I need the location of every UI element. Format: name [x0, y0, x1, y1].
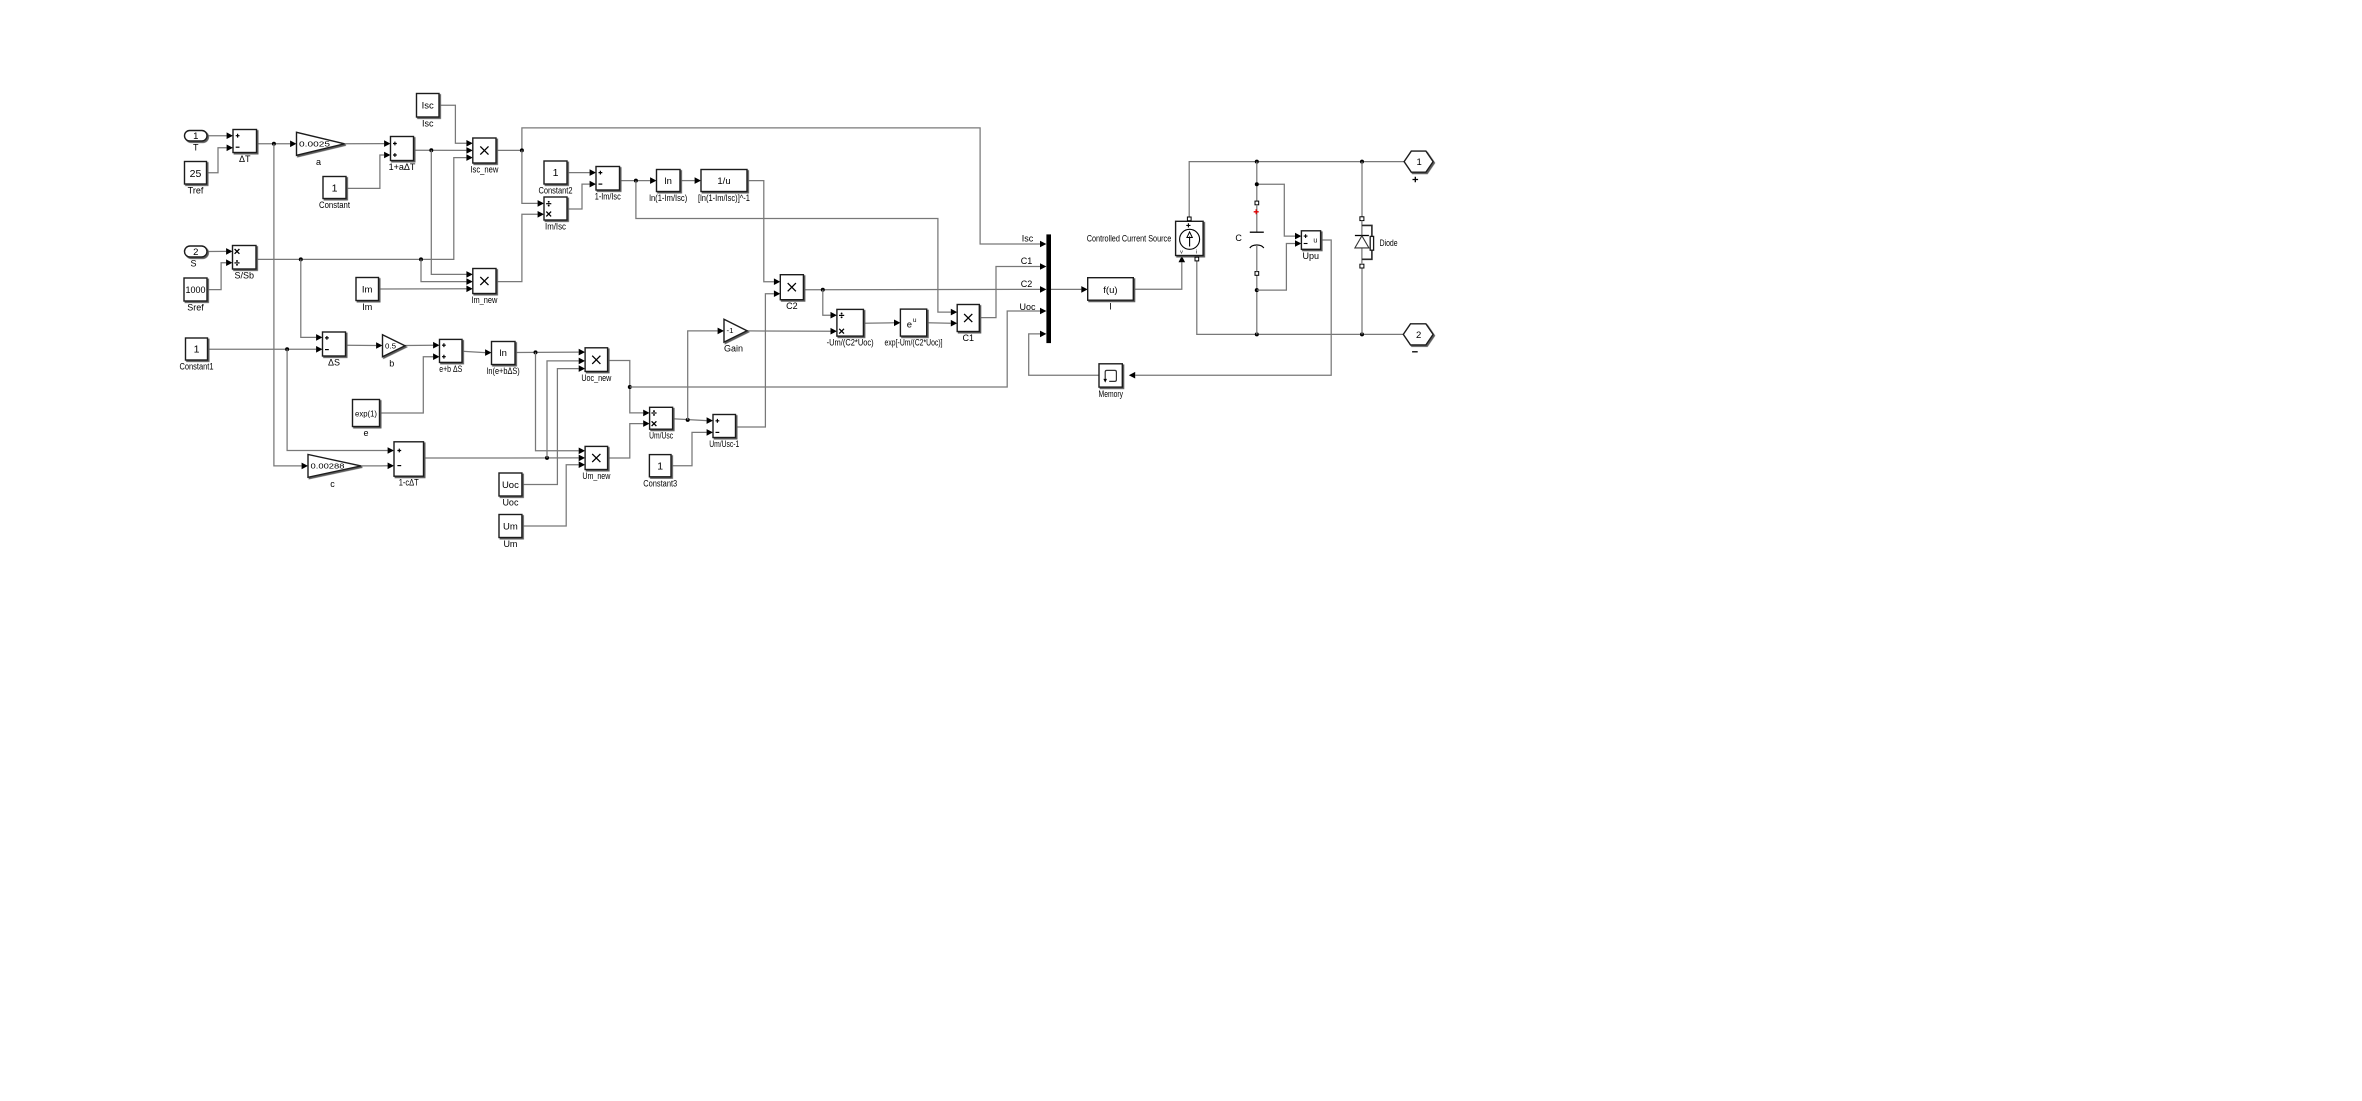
svg-text:exp[-Um/(C2*Uoc)]: exp[-Um/(C2*Uoc)]	[885, 338, 943, 348]
svg-text:b: b	[389, 358, 394, 368]
wire 1-Im/Isc to ln	[620, 180, 651, 182]
sum block 1-Im/Isc	[595, 167, 621, 202]
output port 2 -	[1403, 324, 1433, 352]
svg-text:Gain: Gain	[724, 344, 743, 354]
constant Constant2	[539, 161, 573, 196]
wire Um/Usc-1 to C2	[736, 294, 774, 427]
divide -Um/(C2*Uoc)	[827, 309, 874, 347]
1/u block	[698, 170, 750, 204]
wire Um_new to Um/Usc	[608, 424, 644, 458]
svg-text:Um/Usc-1: Um/Usc-1	[709, 439, 739, 449]
svg-text:1-cΔT: 1-cΔT	[399, 478, 419, 488]
svg-text:1: 1	[332, 183, 338, 195]
wire ΔT branch to gain c	[274, 144, 302, 466]
svg-text:0.00288: 0.00288	[311, 462, 345, 471]
gain c 0.00288	[308, 455, 361, 489]
sum block e+bΔS	[439, 339, 462, 374]
constant Um	[499, 515, 522, 550]
constant Constant3	[643, 455, 677, 489]
svg-text:Isc: Isc	[1022, 234, 1034, 244]
svg-text:Um/Usc: Um/Usc	[649, 431, 673, 441]
wire source to port 2 rail	[1197, 261, 1404, 335]
svg-text:1000: 1000	[186, 285, 206, 296]
gain b 0.5	[383, 335, 406, 369]
svg-text:Memory: Memory	[1099, 389, 1124, 399]
svg-text:Constant: Constant	[319, 200, 350, 210]
wire ΔS to gain b	[346, 344, 377, 346]
svg-text:C1: C1	[962, 333, 974, 343]
divide S/Sb	[233, 246, 257, 281]
svg-text:Isc_new: Isc_new	[470, 165, 498, 175]
wire div to exp	[863, 322, 894, 324]
wire f(u) to current source	[1133, 262, 1182, 289]
wire Constant2 to 1-Im/Isc	[567, 172, 590, 174]
svg-text:e: e	[363, 428, 368, 438]
svg-text:S: S	[190, 259, 196, 269]
wire 1+aΔT branch to Im_new	[431, 150, 466, 274]
wire e+bΔS to ln2	[462, 351, 485, 352]
svg-text:2: 2	[193, 247, 198, 258]
mux	[1046, 234, 1051, 343]
wire C2 branch to div	[823, 290, 831, 316]
svg-text:Um: Um	[503, 521, 518, 532]
svg-text:Um: Um	[503, 539, 517, 549]
svg-text:Upu: Upu	[1303, 251, 1320, 261]
wire 1-cΔT to Um_new	[424, 457, 579, 459]
wire C1 to mux	[979, 267, 1040, 318]
sum block 1+aΔT	[389, 137, 416, 173]
sum block Um/Usc-1	[709, 415, 739, 450]
diode	[1355, 217, 1398, 268]
wire Uoc_new to Um/Usc	[608, 361, 644, 413]
ln block ln(e+bΔS)	[487, 342, 520, 377]
memory block	[1099, 364, 1124, 399]
svg-text:0.5: 0.5	[385, 341, 396, 350]
wire Constant1 branch to 1-cΔT	[287, 349, 388, 450]
svg-text:1-Im/Isc: 1-Im/Isc	[595, 192, 621, 202]
svg-text:Im_new: Im_new	[471, 295, 497, 305]
wire Im to Im_new	[379, 288, 467, 290]
wire Constant1 to ΔS	[208, 348, 317, 350]
svg-text:a: a	[316, 157, 321, 167]
divide Um/Usc	[649, 407, 673, 440]
svg-text:Constant2: Constant2	[539, 186, 573, 196]
svg-text:ΔS: ΔS	[328, 358, 340, 368]
svg-text:f(u): f(u)	[1103, 285, 1117, 296]
wire Isc_new to mux	[496, 128, 1040, 244]
svg-text:T: T	[193, 143, 199, 153]
svg-text:25: 25	[190, 168, 202, 180]
wire diode top	[1361, 162, 1363, 217]
wire Im/Isc to 1-Im/Isc	[567, 184, 590, 209]
svg-text:1: 1	[553, 167, 559, 179]
wire S to S/Sb	[207, 250, 226, 252]
gain a 0.0025	[297, 132, 345, 167]
svg-text:Isc: Isc	[422, 101, 434, 112]
wire 1/u to C2	[747, 181, 774, 282]
wire gain a to 1+aΔT	[345, 143, 385, 145]
svg-text:1: 1	[193, 131, 198, 142]
svg-text:v: v	[1180, 250, 1183, 256]
svg-text:0.0025: 0.0025	[299, 140, 330, 149]
svg-text:Uoc: Uoc	[502, 480, 519, 491]
svg-text:e+b ΔS: e+b ΔS	[439, 364, 462, 374]
svg-text:Sref: Sref	[187, 303, 204, 313]
sum block ΔT	[233, 130, 257, 165]
constant Constant1	[180, 338, 214, 372]
wire ln2 to Uoc_new	[515, 351, 579, 353]
wire exp to C1	[927, 322, 951, 324]
wire source to port 1 rail	[1189, 162, 1404, 217]
wire Uoc to Uoc_new	[522, 369, 579, 485]
wire exp(1) to e+bΔS	[380, 357, 434, 413]
wire gain b to e+bΔS	[405, 344, 433, 346]
wire C2 to mux	[803, 288, 1040, 290]
wire Um/Usc branch to gain -1	[688, 331, 718, 420]
svg-text:-Um/(C2*Uoc): -Um/(C2*Uoc)	[827, 338, 874, 348]
constant Tref 25	[185, 162, 207, 196]
svg-text:I: I	[1109, 302, 1112, 312]
svg-text:C1: C1	[1021, 256, 1033, 266]
capacitor C	[1235, 201, 1263, 275]
input port 2 S	[185, 246, 208, 269]
svg-text:u: u	[913, 317, 917, 324]
svg-text:1+aΔT: 1+aΔT	[389, 162, 416, 172]
svg-text:exp(1): exp(1)	[355, 409, 377, 418]
svg-text:C2: C2	[1021, 279, 1033, 289]
voltage measurement Upu	[1301, 231, 1320, 261]
svg-text:S/Sb: S/Sb	[234, 271, 254, 281]
wire mux to f(u)	[1051, 288, 1081, 290]
svg-text:c: c	[330, 479, 335, 489]
input port 1 T	[185, 131, 208, 153]
svg-text:[ln(1-Im/Isc)]^-1: [ln(1-Im/Isc)]^-1	[698, 193, 750, 203]
svg-text:Uoc_new: Uoc_new	[581, 373, 611, 383]
wire Upu to Memory	[1135, 240, 1331, 375]
wire ln2 branch to Um_new	[536, 352, 579, 450]
svg-text:ln: ln	[664, 176, 671, 187]
product Im_new	[471, 269, 497, 306]
svg-text:C2: C2	[786, 301, 798, 311]
wire gain -1 to div	[747, 330, 831, 332]
gain -1	[724, 319, 747, 353]
sum block ΔS	[323, 332, 346, 368]
wire capacitor bottom	[1256, 275, 1258, 334]
product C2	[780, 275, 803, 312]
wire 1+aΔT to Isc_new	[414, 149, 467, 151]
controlled current source	[1087, 217, 1203, 261]
svg-text:i: i	[1196, 250, 1197, 256]
svg-text:ln(e+bΔS): ln(e+bΔS)	[487, 366, 520, 376]
svg-text:Um_new: Um_new	[582, 471, 610, 481]
svg-text:1: 1	[1416, 157, 1421, 168]
svg-text:e: e	[907, 319, 912, 330]
wire Isc_new branch to Im/Isc	[522, 150, 538, 203]
svg-text:ln(1-Im/Isc): ln(1-Im/Isc)	[649, 193, 687, 203]
svg-text:2: 2	[1416, 330, 1421, 341]
wire Im_new to Im/Isc	[496, 214, 538, 281]
product Uoc_new	[581, 348, 611, 383]
svg-text:u: u	[1313, 237, 1317, 244]
svg-text:Uoc: Uoc	[502, 498, 519, 508]
exp(1) block e	[353, 400, 380, 439]
svg-text:Tref: Tref	[188, 186, 204, 196]
wire capacitor to Upu -	[1257, 244, 1295, 291]
svg-text:C: C	[1235, 233, 1242, 243]
svg-text:1/u: 1/u	[717, 176, 730, 187]
f(u) block I	[1088, 278, 1134, 312]
product C1	[957, 305, 979, 344]
svg-text:1: 1	[657, 460, 663, 472]
output port 1 +	[1404, 151, 1433, 182]
wire Uoc branch to mux	[630, 311, 1040, 387]
wire capacitor top	[1256, 162, 1258, 202]
wire ln to 1/u	[680, 180, 695, 182]
wire Sref to S/Sb	[207, 263, 226, 290]
constant Uoc	[499, 473, 522, 508]
svg-text:Diode: Diode	[1380, 238, 1398, 248]
wire Um to Um_new	[522, 465, 579, 526]
wire Isc to Isc_new	[439, 105, 466, 143]
svg-text:Controlled Current Source: Controlled Current Source	[1087, 234, 1172, 244]
wire Constant to 1+aΔT	[346, 155, 384, 188]
svg-text:1: 1	[194, 344, 200, 356]
exp block e^u	[885, 309, 943, 348]
svg-text:Constant1: Constant1	[180, 362, 214, 372]
wire Constant3 to Um/Usc-1	[671, 432, 707, 465]
constant Sref 1000	[184, 278, 207, 313]
constant Im	[356, 278, 379, 313]
svg-text:-1: -1	[727, 328, 734, 335]
wire Tref to ΔT	[207, 148, 227, 173]
ln block ln(1-Im/Isc)	[649, 170, 687, 204]
svg-text:Uoc: Uoc	[1019, 302, 1036, 312]
wire 1-cΔT branch to Uoc_new	[547, 361, 579, 458]
wire S/Sb to Isc_new	[256, 158, 466, 260]
divide Im/Isc	[544, 197, 567, 232]
product Um_new	[582, 446, 610, 481]
wire Um/Usc to Um/Usc-1	[673, 419, 707, 421]
wire ΔT to gain a	[257, 143, 291, 145]
wire Memory to mux	[1029, 334, 1099, 375]
wire 1-Im/Isc branch to C1	[636, 181, 951, 313]
svg-text:Constant3: Constant3	[643, 478, 677, 488]
svg-text:ΔT: ΔT	[239, 154, 251, 164]
wire T to ΔT	[207, 135, 227, 137]
wire gain c to 1-cΔT	[361, 465, 388, 467]
svg-text:Im: Im	[362, 302, 372, 312]
svg-text:Im/Isc: Im/Isc	[545, 222, 566, 232]
wire capacitor to Upu +	[1257, 184, 1295, 236]
product Isc_new	[470, 138, 498, 175]
wire S/Sb branch to ΔS	[301, 259, 316, 337]
sum block 1-cΔT	[394, 442, 424, 488]
svg-text:Im: Im	[362, 284, 373, 295]
wire S/Sb branch to Im_new	[421, 259, 466, 281]
wire diode bottom	[1361, 268, 1363, 334]
svg-text:Isc: Isc	[422, 119, 434, 129]
svg-text:ln: ln	[499, 348, 506, 359]
constant Isc	[417, 94, 440, 129]
constant Constant	[319, 177, 350, 211]
